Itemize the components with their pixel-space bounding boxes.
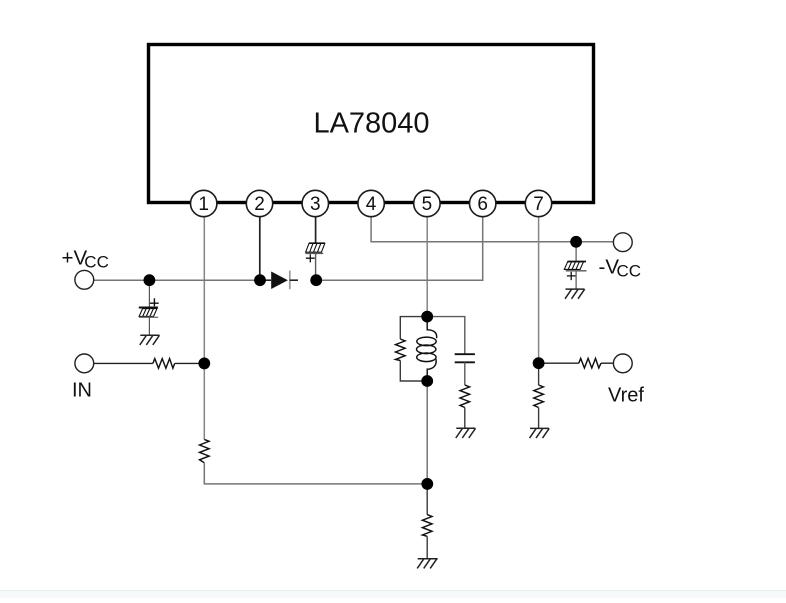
svg-text:3: 3	[310, 194, 321, 215]
pin 1	[191, 190, 217, 216]
resistor R2 (pin1 column)	[200, 439, 210, 462]
wire R2 to bottom node	[204, 463, 427, 484]
wire R5 to ground	[426, 536, 428, 558]
diode D1	[260, 271, 298, 290]
wire pin3 column upper	[315, 217, 317, 243]
ground G1	[140, 335, 160, 345]
resistor R4	[460, 385, 470, 408]
ground G5	[417, 559, 438, 569]
junction node -Vcc/C3	[570, 236, 582, 248]
resistor R6 (Vref series)	[579, 358, 601, 368]
junction node pin7/Vref	[533, 357, 545, 369]
wire pin1 column	[203, 217, 205, 440]
wire pin7 column	[538, 217, 540, 363]
ground G2	[565, 289, 585, 299]
resistor R1 (IN series)	[153, 359, 175, 369]
resistor R5 (bottom)	[422, 515, 432, 537]
terminal -Vcc	[613, 233, 632, 252]
svg-text:2: 2	[254, 194, 265, 215]
svg-text:IN: IN	[72, 379, 92, 401]
capacitor C2 on pin3	[306, 243, 326, 262]
wire pin3 column lower	[315, 253, 317, 280]
wire RL left branch	[400, 317, 427, 381]
wire cap branch top	[427, 317, 465, 354]
wire pin4 to -Vcc rail	[371, 217, 613, 242]
bottom scan band	[0, 590, 786, 591]
wire pin2 column	[259, 217, 261, 280]
capacitor C4	[455, 354, 475, 362]
ground G4	[530, 428, 550, 438]
wire R7 to ground	[538, 408, 540, 429]
resistor R3 (RL parallel)	[396, 339, 406, 361]
junction node RL top	[421, 311, 433, 323]
junction node diode cathode / pin3	[310, 274, 322, 286]
wire bottom node to R5	[426, 484, 428, 515]
svg-text:CC: CC	[84, 253, 109, 272]
wire pin7 node to Vref resistor	[539, 362, 579, 364]
svg-text:1: 1	[198, 194, 209, 215]
svg-text:7: 7	[533, 194, 544, 215]
terminal +Vcc	[75, 270, 94, 289]
junction node IN/pin1	[198, 358, 210, 370]
svg-text:CC: CC	[617, 262, 642, 281]
capacitor C1 on +Vcc rail	[139, 280, 159, 335]
junction node +Vcc/C1	[144, 274, 156, 286]
wire pin5 node down	[426, 381, 428, 484]
svg-text:Vref: Vref	[608, 384, 644, 406]
svg-text:LA78040: LA78040	[313, 108, 429, 140]
wire pin5 column	[426, 217, 428, 317]
pin 6	[470, 190, 496, 216]
wire pin6 column to +Vcc rail	[316, 217, 483, 280]
IC U1 body	[149, 45, 594, 203]
pin 2	[246, 190, 272, 216]
wire C4 to R4	[464, 362, 466, 385]
svg-text:5: 5	[422, 194, 433, 215]
wire IN to resistor	[94, 362, 153, 364]
capacitor C3 on -Vcc	[564, 242, 586, 289]
ground G3	[456, 428, 476, 438]
pin 4	[358, 190, 384, 216]
inductor L1 entry	[427, 317, 436, 339]
svg-text:6: 6	[477, 194, 488, 215]
pin 7	[525, 190, 551, 216]
wire +Vcc terminal to rail	[94, 279, 260, 281]
inductor L1 loops	[417, 337, 437, 362]
pin 5	[414, 190, 440, 216]
wire R4 to ground	[464, 408, 466, 429]
terminal IN	[75, 354, 94, 373]
resistor R7	[534, 385, 544, 408]
junction node bottom	[421, 478, 433, 490]
wire resistor to node	[175, 362, 205, 364]
terminal Vref	[613, 354, 632, 373]
junction node diode anode / pin2	[254, 274, 266, 286]
wire R6 to terminal	[601, 362, 614, 364]
svg-text:4: 4	[366, 194, 377, 215]
pin 3	[302, 190, 328, 216]
inductor L1 exit	[427, 359, 436, 381]
junction node RL bottom	[421, 375, 433, 387]
wire pin7 node down to R7	[538, 363, 540, 385]
